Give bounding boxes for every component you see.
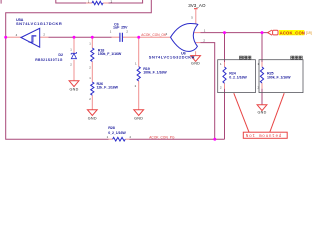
svg-text:100k_F_1/16W: 100k_F_1/16W (267, 76, 291, 80)
svg-text:12k_F_1/16W: 12k_F_1/16W (97, 86, 119, 90)
svg-text:GND: GND (191, 62, 200, 66)
svg-text:R28: R28 (108, 126, 115, 130)
svg-text:GND: GND (257, 110, 266, 114)
svg-text:GND: GND (88, 117, 97, 121)
svg-text:ACOK_CON: ACOK_CON (280, 30, 306, 35)
svg-text:100k_F_1/16W: 100k_F_1/16W (143, 71, 167, 75)
svg-text:0_2_1/16W: 0_2_1/16W (229, 76, 247, 80)
svg-text:[19]: [19] (306, 31, 312, 35)
svg-text:D2: D2 (58, 53, 63, 57)
svg-text:GND: GND (69, 88, 78, 92)
svg-text:ACOK_CON_OK: ACOK_CON_OK (141, 33, 167, 37)
svg-text:Not mounted: Not mounted (246, 134, 282, 139)
svg-text:0_2_1/16W: 0_2_1/16W (108, 131, 126, 135)
svg-text:GND: GND (134, 117, 143, 121)
svg-text:RB521S30T1G: RB521S30T1G (35, 58, 63, 62)
svg-text:3V3_AO: 3V3_AO (188, 3, 206, 8)
svg-text:150k_F_1/16W: 150k_F_1/16W (98, 52, 122, 56)
svg-text:ACOK_CON_PG: ACOK_CON_PG (149, 135, 175, 139)
svg-text:SN74LVC1G32DCKR: SN74LVC1G32DCKR (149, 55, 195, 60)
svg-text:SN74LVC1G17DCKR: SN74LVC1G17DCKR (16, 21, 62, 26)
